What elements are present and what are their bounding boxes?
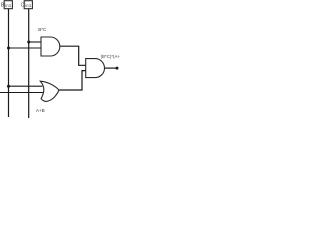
svg-text:in1: in1 bbox=[25, 3, 32, 8]
wire B vertical bbox=[8, 9, 10, 117]
input port C bbox=[21, 1, 33, 9]
wire G2 output to G3 lower input bbox=[59, 71, 86, 90]
junction node on B (to OR A+B) bbox=[7, 85, 10, 88]
wire B branch to AND lower input bbox=[9, 47, 42, 49]
wire input A from left edge to OR lower input bbox=[0, 92, 43, 94]
svg-text:in1: in1 bbox=[5, 3, 12, 8]
wire G1 output to G3 upper input bbox=[60, 46, 86, 65]
junction node on C (to AND B*C) bbox=[27, 41, 30, 44]
wire C branch to AND upper input bbox=[29, 41, 42, 43]
svg-text:(B*C)*(A+B): (B*C)*(A+B) bbox=[101, 54, 120, 59]
or-gate G2 (A+B) bbox=[40, 81, 59, 101]
and-gate G3 ((B*C)*(A+B)) bbox=[86, 59, 105, 78]
wire G3 output bbox=[105, 67, 118, 69]
input port B bbox=[1, 1, 13, 9]
and-gate G1 (B*C) bbox=[41, 37, 60, 56]
wire B branch to OR upper input bbox=[9, 85, 43, 87]
svg-text:B*C: B*C bbox=[38, 27, 47, 32]
wire C vertical bbox=[28, 9, 30, 118]
node output endpoint bbox=[116, 67, 119, 70]
junction node on B (to AND B*C) bbox=[7, 47, 10, 50]
svg-text:A+B: A+B bbox=[36, 108, 45, 113]
